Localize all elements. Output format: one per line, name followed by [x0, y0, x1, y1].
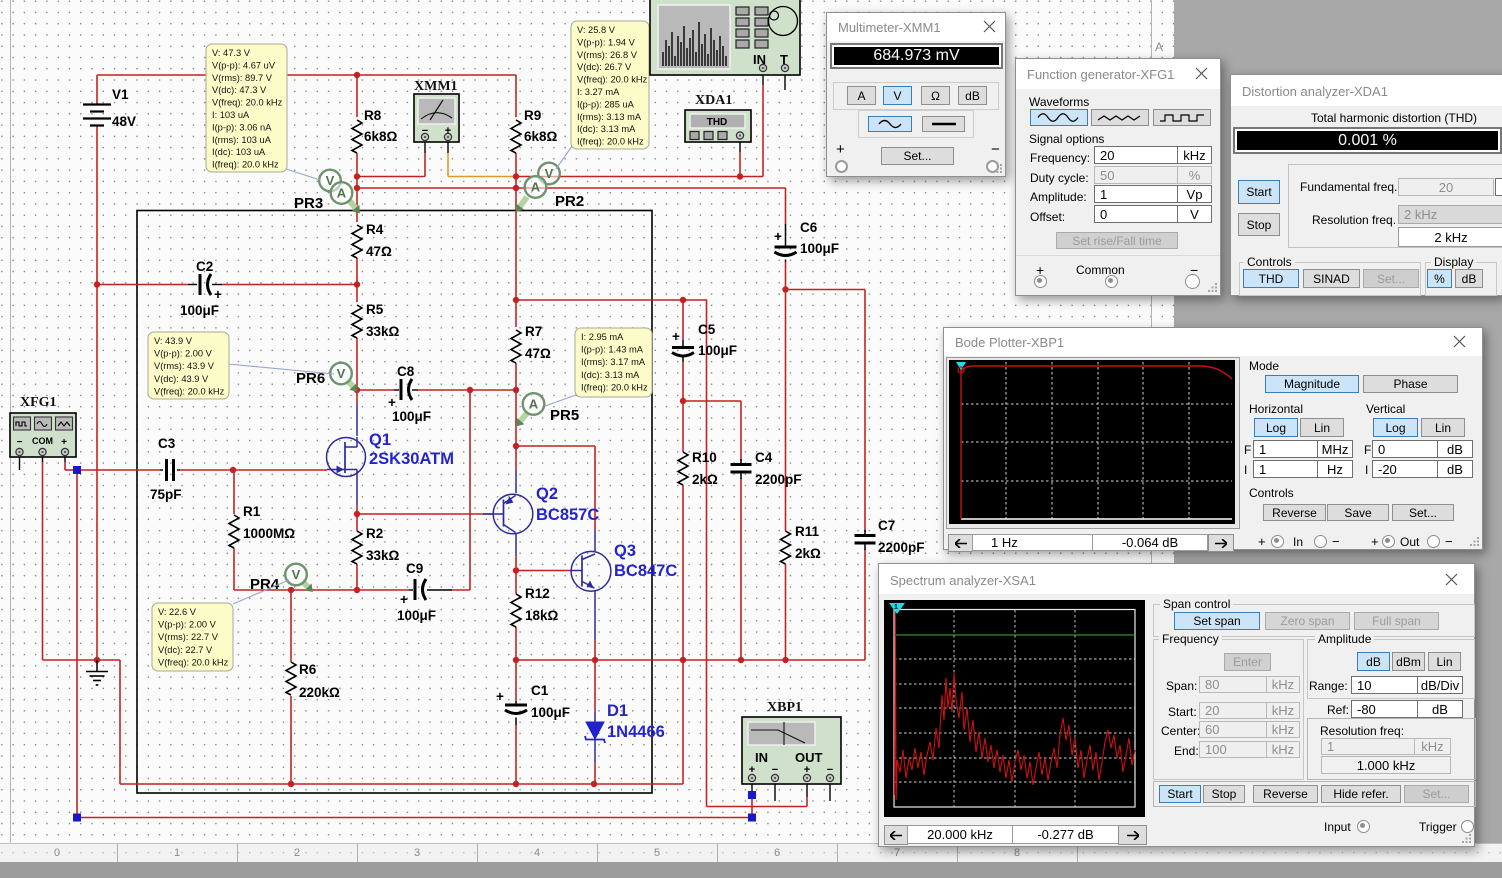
resistor R7: [511, 330, 521, 363]
capacitor C5 (polarized): [672, 346, 694, 349]
wire C2 row y=284.5 left: [97, 284, 188, 286]
svg-text:I(rms): 3.13 mA: I(rms): 3.13 mA: [577, 112, 642, 122]
wire XFG1 plus stub: [64, 457, 66, 462]
svg-text:A: A: [529, 397, 539, 412]
svg-text:PR5: PR5: [550, 407, 579, 424]
diode D1 (zener 1N4466): [594, 712, 596, 722]
wire XMM1 minus branch y=176.5: [357, 176, 425, 178]
wire R8 column upper x=357: [356, 75, 358, 117]
svg-text:XDA1: XDA1: [695, 93, 732, 108]
wire x=357 through PR3 down to R4: [356, 177, 358, 223]
bottom control buttons: [1153, 781, 1476, 807]
mode buttons A V ohm dB: [847, 86, 876, 105]
probe PR4 (V) on bias node: [302, 581, 308, 587]
wire R8 bottom to node: [356, 153, 358, 177]
svg-text:A: A: [531, 180, 541, 195]
wire V+ top rail y=75: [97, 74, 516, 76]
wire C1 column: [515, 660, 517, 701]
readout bar: [948, 534, 973, 552]
wire R4 to mid node: [356, 258, 358, 302]
wire XBP1 IN+ stub: [751, 784, 753, 795]
wire x=357 R2 column: [356, 514, 358, 531]
svg-text:V(dc): 22.7 V: V(dc): 22.7 V: [158, 645, 213, 655]
probe PR5 (A) on Q2 node: [521, 413, 528, 421]
wire Q1 source down: [356, 476, 358, 505]
wire C5 column x=683: [682, 300, 684, 340]
spectrum screen: [884, 600, 1145, 817]
transistor Q1 2SK30ATM (JFET): [327, 438, 366, 477]
wire ground drop x=120 to bottom rail: [119, 660, 121, 784]
wire C6 black leads: [785, 224, 787, 246]
wire XBP1 OUT column x=706.5: [706, 300, 708, 807]
svg-text:I: 3.27 mA: I: 3.27 mA: [577, 87, 620, 97]
wire x=516 PR2 column down: [515, 177, 517, 301]
capacitor C3: [165, 459, 168, 481]
probe PR3 (V/A) on supply node: [349, 200, 356, 208]
svg-text:V: V: [545, 166, 554, 181]
svg-text:I(freq): 20.0 kHz: I(freq): 20.0 kHz: [581, 382, 648, 392]
svg-text:+: +: [61, 437, 67, 448]
wire R6 top: [290, 590, 292, 662]
capacitor C8 (polarized): [400, 379, 403, 400]
waveform buttons: [1030, 109, 1088, 126]
svg-text:I(dc): 3.13 mA: I(dc): 3.13 mA: [577, 124, 636, 134]
svg-text:V(dc): 26.7 V: V(dc): 26.7 V: [577, 62, 632, 72]
wire R9 column x=516 top: [515, 75, 517, 117]
DC button: [922, 116, 965, 132]
start/stop buttons: [1238, 180, 1280, 204]
wire C5/R10 link y=401: [683, 400, 741, 402]
resistor R4: [352, 225, 362, 258]
annotation PR4 readout box: [233, 580, 289, 604]
wire supply branch y=188: [357, 187, 786, 189]
svg-text:I: 103 uA: I: 103 uA: [212, 110, 250, 120]
window: Function generator-XFG1: [1015, 58, 1221, 296]
THD display: [1233, 127, 1502, 154]
svg-text:XBP1: XBP1: [767, 700, 802, 715]
annotation box around amplifier circuit: [137, 211, 652, 794]
svg-text:I(p-p): 285 uA: I(p-p): 285 uA: [577, 99, 635, 109]
svg-text:COM: COM: [32, 436, 53, 446]
capacitor C7: [855, 534, 876, 537]
annotation PR5 readout box: [545, 395, 576, 406]
svg-text:I(p-p): 1.43 mA: I(p-p): 1.43 mA: [581, 345, 644, 355]
wire Q3 base y=570.5: [516, 570, 571, 572]
wire ground net y=660 left: [43, 659, 121, 661]
annotation PR3 readout box: [283, 168, 320, 180]
resistor R2: [352, 531, 362, 564]
wire XFG1 COM down: [42, 461, 44, 660]
wire rail riser x=683 to output net: [682, 660, 684, 784]
wire R12 bottom to output node: [515, 627, 517, 660]
svg-text:I(dc): 103 uA: I(dc): 103 uA: [212, 147, 266, 157]
wire R12 top: [515, 571, 517, 595]
window: Multimeter-XMM1: [826, 12, 1006, 177]
svg-text:V(rms): 89.7 V: V(rms): 89.7 V: [212, 73, 273, 83]
wire XFG1 COM stub: [42, 457, 44, 462]
svg-text:V(freq): 20.0 kHz: V(freq): 20.0 kHz: [212, 98, 283, 108]
wire x=516 PR5 to Q2 node: [515, 390, 517, 470]
svg-text:V(p-p): 4.67 uV: V(p-p): 4.67 uV: [212, 60, 276, 70]
svg-text:OUT: OUT: [795, 750, 823, 765]
probe PR6 (V) on Q1 drain node: [347, 380, 353, 387]
svg-text:THD: THD: [707, 117, 728, 128]
wire C8 net y=390: [357, 389, 394, 391]
annotation PR2 readout box: [556, 146, 572, 169]
svg-text:I(freq): 20.0 kHz: I(freq): 20.0 kHz: [577, 137, 644, 147]
wire feedback column x=470: [469, 390, 471, 590]
svg-text:V: 22.6 V: V: 22.6 V: [158, 607, 197, 617]
wire D1 column: [594, 660, 596, 712]
wire XMM1 plus vertical (orange): [447, 142, 449, 153]
resistor R9: [511, 120, 521, 153]
svg-text:V(p-p): 1.94 V: V(p-p): 1.94 V: [577, 37, 636, 47]
svg-text:V(freq): 20.0 kHz: V(freq): 20.0 kHz: [577, 75, 648, 85]
svg-text:XMM1: XMM1: [414, 79, 458, 94]
capacitor C6 (polarized): [775, 246, 797, 249]
svg-text:V(rms): 26.8 V: V(rms): 26.8 V: [577, 50, 638, 60]
wire V1 bottom to ground junction: [96, 126, 98, 660]
spectrum trace: [895, 611, 1136, 800]
svg-text:I(p-p): 3.06 nA: I(p-p): 3.06 nA: [212, 122, 272, 132]
wire Q3 collector column: [594, 446, 596, 530]
wire XBP1 IN- stub: [774, 784, 776, 801]
wire bottom ground rail y=784: [120, 783, 683, 785]
transistor Q2 BC857C (PNP): [493, 494, 533, 534]
svg-text:V: 47.3 V: V: 47.3 V: [212, 48, 251, 58]
svg-text:IN: IN: [755, 750, 768, 765]
selection handles on XFG1-to-XBP1 wire: [73, 466, 81, 474]
wire XMM1 minus vertical: [424, 153, 426, 177]
capacitor C9 (polarized): [414, 579, 417, 600]
wire XSA1 T pin stub: [784, 71, 786, 90]
span control group: [1153, 604, 1475, 637]
svg-text:V(dc): 43.9 V: V(dc): 43.9 V: [154, 374, 209, 384]
resistor R8: [352, 120, 362, 153]
wire Q2 base from Q1 source y=514: [357, 513, 493, 515]
wire V1 column x=97 (battery top): [96, 75, 98, 104]
wire bias net y=590: [234, 589, 409, 591]
svg-text:V(p-p): 2.00 V: V(p-p): 2.00 V: [158, 620, 217, 630]
svg-text:V: 43.9 V: V: 43.9 V: [154, 336, 193, 346]
capacitor C2 (polarized): [199, 274, 202, 295]
capacitor C1 (polarized): [505, 704, 527, 707]
window: Bode Plotter-XBP1: [943, 327, 1483, 550]
wire Q2 emitter blue: [515, 470, 517, 493]
wire XDA1 pin drop: [739, 142, 741, 152]
THD/SINAD buttons: [1243, 269, 1299, 288]
wire Q3 emitter down: [594, 590, 596, 640]
bode magnitude trace: [960, 367, 962, 519]
svg-text:A: A: [337, 186, 347, 201]
wire input net y=470: [77, 469, 160, 471]
svg-text:V(freq): 20.0 kHz: V(freq): 20.0 kHz: [154, 386, 225, 396]
wire C7 black leads: [864, 530, 866, 534]
bode plot screen: [946, 357, 1240, 529]
wire C6 column x=785.5: [785, 188, 787, 224]
reference level green line: [894, 634, 1135, 636]
wire C4 black leads: [740, 459, 742, 463]
svg-text:V: V: [292, 567, 301, 582]
wire Q2 collector down: [515, 533, 517, 556]
instrument icon XSA1 (spectrum analyzer): [650, 0, 800, 75]
battery V1: [83, 103, 111, 105]
wire R5 bottom to PR6 node: [356, 338, 358, 390]
Set button: [881, 147, 954, 165]
readout bar: [884, 825, 908, 845]
wire R9 bottom to node: [515, 153, 517, 177]
window: Spectrum analyzer-XSA1: [878, 563, 1475, 847]
wire C1 black leads: [515, 701, 517, 704]
wire C2 row y=284.5 right: [212, 284, 222, 286]
marker 1: [889, 603, 905, 614]
svg-text:I(freq): 20.0 kHz: I(freq): 20.0 kHz: [212, 160, 279, 170]
wire XBP1 OUT+ link y=806.5: [707, 806, 808, 808]
wire R7 bottom to C8 net: [515, 363, 517, 390]
junction dots: [354, 72, 360, 78]
svg-text:V(freq): 20.0 kHz: V(freq): 20.0 kHz: [158, 657, 229, 667]
svg-text:V: 25.8 V: V: 25.8 V: [577, 25, 616, 35]
resolution freq group: [1307, 718, 1476, 780]
probe PR2 (A/V) on R9 node: [520, 197, 527, 207]
svg-text:I(dc): 3.13 mA: I(dc): 3.13 mA: [581, 370, 640, 380]
svg-text:V(rms): 22.7 V: V(rms): 22.7 V: [158, 632, 219, 642]
wire R1 column: [233, 470, 235, 514]
svg-text:V(p-p): 2.00 V: V(p-p): 2.00 V: [154, 349, 213, 359]
resistor R12: [511, 594, 521, 627]
resistor R1: [229, 515, 239, 548]
capacitor C4: [731, 463, 752, 466]
svg-text:−: −: [17, 437, 23, 448]
wire C7 column x=865: [864, 290, 866, 533]
wire Q2/Q3 top link y=446: [516, 445, 595, 447]
svg-text:V(dc): 47.3 V: V(dc): 47.3 V: [212, 85, 267, 95]
wire XBP1 OUT+ stub: [806, 784, 808, 797]
wire XBP1 OUT- stub: [829, 784, 831, 801]
svg-text:V: V: [337, 366, 346, 381]
wire node to XDA1 y=176.5: [516, 176, 740, 178]
wire XSA1 IN pin stub: [762, 71, 764, 85]
multimeter reading display: [830, 43, 1003, 69]
wire C4 column x=741: [740, 401, 742, 461]
svg-text:I: 2.95 mA: I: 2.95 mA: [581, 332, 624, 342]
wire output net y=660: [516, 659, 865, 661]
svg-text:XFG1: XFG1: [20, 395, 57, 410]
transistor Q3 BC847C (NPN): [571, 551, 611, 591]
resistor R10: [678, 452, 688, 485]
wire XFG1 minus stub: [19, 457, 21, 470]
wire C6/C7 link y=289.5: [786, 289, 866, 291]
wire R7 net y=300: [516, 299, 707, 301]
AC button: [868, 116, 912, 132]
svg-text:I(rms): 3.17 mA: I(rms): 3.17 mA: [581, 357, 646, 367]
svg-text:PR2: PR2: [555, 193, 584, 210]
ground symbol: [96, 660, 98, 671]
wire R2 bottom: [356, 564, 358, 590]
wire R11 column: [785, 290, 787, 532]
mode group: [1249, 359, 1279, 373]
wire R7 top: [515, 300, 517, 327]
resistor R6: [286, 662, 296, 695]
annotation PR6 readout box: [228, 364, 334, 374]
wire to XSA1 IN pin: [740, 176, 763, 178]
resistor R11: [781, 531, 791, 564]
wire R6 bottom: [290, 696, 292, 784]
wire selected probe wire x=77 (to XBP1 IN+): [76, 470, 78, 818]
window: Distortion analyzer-XDA1: [1230, 74, 1502, 296]
svg-text:I(rms): 103 uA: I(rms): 103 uA: [212, 135, 272, 145]
wire Q1 drain blue: [356, 390, 358, 404]
svg-text:V(rms): 43.9 V: V(rms): 43.9 V: [154, 361, 215, 371]
resistor R5: [352, 305, 362, 338]
wire XMM1 plus branch to R9 column (orange): [448, 176, 516, 178]
wire C5 black leads: [682, 340, 684, 346]
svg-text:PR3: PR3: [294, 195, 323, 212]
set rise/fall button: [1056, 232, 1178, 249]
